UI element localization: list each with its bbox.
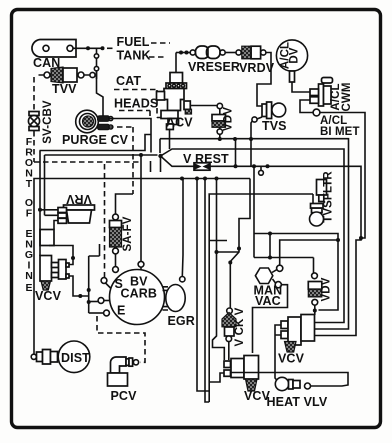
svg-text:VAC: VAC: [255, 294, 281, 308]
wire stub y240: [209, 240, 227, 242]
svg-text:VDV: VDV: [223, 107, 235, 131]
wire VCKV drop chain: [230, 179, 250, 309]
heat control valve HEAT VLV: [275, 377, 310, 390]
wire ACV bottom hook through B1 to B2: [169, 129, 171, 150]
svg-text:TVSFLTR: TVSFLTR: [323, 171, 335, 223]
wire to carb left port: [89, 301, 98, 303]
wire TVS lower port down to bus B1: [251, 121, 253, 140]
wire mid vertical x197: [197, 179, 209, 392]
wire VDV1 down to bus B1: [219, 134, 221, 139]
svg-text:VCV: VCV: [35, 289, 62, 303]
air cleaner duct valve A/CL DV: [276, 40, 307, 82]
wire chain to VCV mid upper port: [213, 179, 225, 361]
wire VCV mid lower port staircase: [209, 373, 224, 382]
svg-text:EGR: EGR: [168, 314, 195, 328]
manifold vacuum source MAN VAC: [255, 265, 282, 288]
vacuum delay valve VDV: [190, 103, 225, 134]
wire TVV right port: [84, 71, 97, 79]
wire VRESER to VRDV: [225, 52, 236, 54]
dashed E to PCV: [97, 316, 145, 362]
wire ACV top to VRESER line: [176, 52, 190, 54]
wire left line B to VRV port2: [45, 155, 59, 215]
svg-text:TANK: TANK: [117, 49, 151, 63]
sub-atmosphere fuel valve SA-FV: [110, 194, 134, 267]
wire V REST line to right bus B3: [210, 166, 361, 335]
wire mid vertical x205: [205, 179, 209, 403]
wire VRDV down to TVS: [257, 53, 271, 107]
vacuum delay valve VDV 2: [308, 258, 322, 316]
junction: [86, 46, 90, 50]
svg-text:DIST: DIST: [61, 351, 90, 365]
canister CAN: [32, 40, 76, 58]
svg-text:VRDV: VRDV: [239, 61, 275, 75]
svg-text:CARB: CARB: [121, 287, 158, 301]
air cleaner cold weather modulator A/CL CWM: [310, 78, 333, 107]
port A/CL BI MET: [313, 109, 320, 116]
svg-text:VCV: VCV: [278, 352, 305, 366]
wire link B1 to V REST line at x235: [235, 139, 237, 166]
wire VDV2 top feed: [254, 234, 314, 258]
wire DIST riser and y178 line: [34, 179, 250, 357]
dashed S-port drop: [104, 164, 106, 277]
svg-text:VDV: VDV: [321, 277, 333, 301]
carburetor BV CARB: [98, 261, 164, 324]
valve SV-CBV: [28, 112, 39, 131]
wire BI MET port to right bus: [320, 113, 365, 239]
wire junction down to TVV line: [97, 48, 104, 116]
dashed SV-CBV down to long dashed run: [34, 131, 142, 162]
svg-text:VRESER: VRESER: [188, 60, 240, 74]
svg-text:T: T: [26, 178, 33, 190]
check valve V CK V: [222, 308, 236, 360]
svg-text:HEADS: HEADS: [114, 97, 158, 111]
svg-text:SV-CBV: SV-CBV: [42, 100, 54, 144]
wire VCV upper port chain: [69, 276, 89, 296]
wire VRV third port into rect: [54, 221, 58, 230]
svg-text:DV: DV: [289, 47, 301, 63]
wire carb to EGR connectors: [163, 287, 169, 310]
node B1 junction dots: [218, 137, 222, 141]
svg-text:CWM: CWM: [341, 82, 353, 111]
wire A/CL DV to CWM port: [292, 82, 310, 92]
wire heat valve to right bus: [231, 373, 348, 387]
wire hub horizontal B: [45, 154, 158, 156]
thermal vent valve TVV: [44, 67, 95, 83]
dashed TVV left to SV-CBV line: [34, 75, 44, 111]
air control valve ACV: [157, 53, 192, 130]
TVS filter TVSFLTR: [310, 180, 327, 227]
distributor DIST: [31, 341, 90, 373]
dashed CAT underline to ACV: [114, 90, 161, 118]
wire CWM lower port to BI MET port: [300, 100, 313, 113]
wire carb riser to hub B: [140, 155, 142, 262]
wire link B1 to V REST line at x251: [250, 139, 252, 166]
solenoid vent valve rect: [40, 230, 54, 246]
wire rect bottom to VCV upper port: [49, 246, 73, 265]
vacuum control valve VCV mid: [224, 356, 259, 392]
vacuum control valve VCV left: [40, 256, 69, 291]
svg-text:F: F: [26, 208, 33, 220]
thermal vacuum switch TVS: [252, 102, 286, 122]
wire stub below hub: [150, 161, 152, 172]
dashed leader fuel tank: [107, 47, 113, 49]
PCV valve: [108, 357, 139, 386]
svg-text:VRV: VRV: [66, 192, 92, 206]
port tap on V REST line: [260, 166, 262, 170]
svg-text:ACV: ACV: [166, 116, 193, 130]
wire E port: [89, 312, 104, 314]
node hub junction: [158, 154, 162, 158]
svg-text:E: E: [117, 304, 125, 318]
svg-text:PCV: PCV: [111, 389, 138, 403]
svg-text:BI MET: BI MET: [320, 126, 360, 138]
svg-text:SA-FV: SA-FV: [122, 216, 134, 251]
bus B1 from hub to right bus into VCV mid line: [160, 139, 349, 329]
wire purge top tube to hub: [108, 119, 151, 153]
wire cross link y252: [217, 251, 240, 253]
svg-text:CAT: CAT: [116, 74, 141, 88]
dashed purge bottom tube to SA-FV drop: [108, 127, 133, 194]
wire mid vertical x210: [209, 194, 313, 402]
wire x88 vertical: [89, 244, 100, 313]
svg-text:N: N: [25, 270, 33, 282]
wire EGR riser: [181, 179, 184, 277]
wire VCV right ports to heat valve column: [275, 325, 281, 381]
svg-text:E: E: [25, 282, 32, 294]
restrictor V REST: [194, 163, 210, 170]
wire y233 bus to VDV2 junction: [254, 234, 338, 311]
svg-text:TVS: TVS: [262, 119, 287, 133]
wire hub horizontal A: [40, 135, 152, 151]
EGR valve: [166, 277, 185, 312]
wire bus B1 into hub junction: [159, 139, 161, 153]
svg-text:TVV: TVV: [52, 82, 77, 96]
svg-text:HEAT VLV: HEAT VLV: [267, 395, 328, 409]
vacuum retard delay valve VRDV: [236, 46, 266, 59]
vacuum control valve VCV right: [281, 315, 315, 353]
svg-text:V CK V: V CK V: [234, 307, 246, 346]
wire canister to fuel-tank junction: [73, 47, 101, 49]
purge control valve PURGE CV: [76, 110, 113, 133]
vacuum reservoir VRESER: [190, 46, 225, 59]
wire MAN VAC lower to VCV mid top: [253, 285, 288, 353]
label FRONT OF ENGINE: [25, 136, 33, 294]
svg-text:FUEL: FUEL: [117, 35, 150, 49]
vacuum regulator valve VRV: [58, 205, 95, 223]
dashed HEADS underline: [119, 111, 150, 117]
wire MAN VAC upper to x330: [280, 240, 338, 265]
wire link bowtie line down to VDV2 feed: [253, 166, 255, 257]
svg-text:PURGE CV: PURGE CV: [62, 133, 129, 147]
wire left line A to VRV port1 and VCV top: [40, 151, 58, 257]
